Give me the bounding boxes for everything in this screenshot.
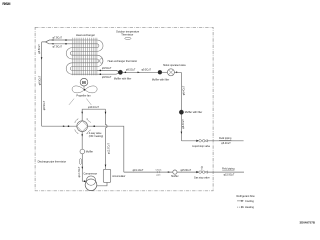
svg-text:joint: joint bbox=[156, 173, 161, 176]
propeller fan bbox=[72, 86, 97, 93]
svg-text:M: M bbox=[82, 80, 86, 85]
gas stop valve with service port bbox=[194, 166, 210, 179]
svg-text:φ19.1CuT: φ19.1CuT bbox=[88, 106, 99, 109]
coil outlet pipes to muffler with filter bbox=[97, 67, 121, 79]
svg-text:Field piping: Field piping bbox=[222, 167, 235, 170]
svg-text:φ19.1CuT: φ19.1CuT bbox=[133, 169, 144, 172]
svg-text:Heat exchanger thermistor: Heat exchanger thermistor bbox=[108, 60, 138, 63]
svg-text:φ6.4CuT: φ6.4CuT bbox=[182, 119, 185, 129]
svg-text:Muffler: Muffler bbox=[86, 151, 93, 154]
svg-text:RXS-M: RXS-M bbox=[2, 2, 10, 6]
svg-text:φ12.7CuT: φ12.7CuT bbox=[107, 143, 110, 154]
svg-text:Heating: Heating bbox=[245, 205, 254, 209]
svg-text:Cooling: Cooling bbox=[245, 199, 254, 203]
4-way valve bbox=[75, 119, 104, 139]
heat exchanger thermistor bbox=[100, 59, 103, 64]
svg-text:Check: Check bbox=[156, 169, 162, 171]
pipe muffler1 to muffler2 bbox=[123, 68, 158, 73]
svg-text:φ7.9CuT: φ7.9CuT bbox=[53, 37, 63, 40]
gas muffler bbox=[171, 170, 178, 178]
svg-text:Gas stop valve: Gas stop valve bbox=[194, 176, 210, 179]
svg-text:φ6.4CuT: φ6.4CuT bbox=[183, 85, 186, 95]
svg-text:Refrigerant flow: Refrigerant flow bbox=[237, 194, 255, 198]
svg-text:Liquid stop valve: Liquid stop valve bbox=[192, 145, 210, 148]
suction pipe accumulator to compressor bbox=[97, 182, 107, 185]
motor-operated valve bbox=[162, 64, 187, 76]
accumulator feed pipe with hop bbox=[105, 109, 111, 169]
svg-text:Heat exchanger: Heat exchanger bbox=[76, 33, 95, 37]
liquid stop valve bbox=[192, 140, 210, 148]
svg-text:Compressor: Compressor bbox=[83, 173, 97, 176]
discharge pipe thermistor bbox=[79, 159, 81, 165]
svg-text:φ9.5CuT: φ9.5CuT bbox=[39, 75, 42, 85]
svg-text:Discharge pipe thermistor: Discharge pipe thermistor bbox=[38, 160, 67, 163]
4-way valve bottom port pipe bbox=[81, 132, 83, 150]
svg-text:φ15.9CuT: φ15.9CuT bbox=[180, 169, 191, 172]
svg-text:φ15.9CuT: φ15.9CuT bbox=[224, 174, 235, 177]
svg-text:φ12.7CuT: φ12.7CuT bbox=[78, 166, 81, 177]
compressor bbox=[83, 173, 97, 191]
heat exchanger serpentine tube bbox=[66, 40, 103, 74]
svg-text:Motor-operated valve: Motor-operated valve bbox=[163, 64, 186, 67]
gas field piping label bbox=[222, 167, 235, 176]
svg-text:Accumulator: Accumulator bbox=[112, 175, 125, 178]
svg-text:Propeller fan: Propeller fan bbox=[76, 94, 91, 97]
muffler with filter 1 bbox=[114, 70, 132, 81]
pipe motor valve to liquid stop valve bbox=[174, 72, 196, 141]
svg-text:φ6.4CuT: φ6.4CuT bbox=[221, 142, 231, 145]
fan housing strokes bbox=[69, 99, 74, 105]
flow arcs around 4-way valve bbox=[75, 119, 91, 134]
coil inlet pipe upper bbox=[46, 37, 73, 42]
liquid side left pipe bbox=[38, 40, 77, 127]
coil inlet pipe lower bbox=[46, 42, 73, 49]
outdoor unit dashed boundary bbox=[35, 27, 213, 191]
flow arrow on gas pipe bbox=[168, 171, 170, 173]
muffler with filter 3 bbox=[179, 110, 202, 114]
svg-text:(ON: heating): (ON: heating) bbox=[89, 135, 104, 138]
svg-text:Muffler: Muffler bbox=[171, 175, 178, 178]
liquid field piping bbox=[207, 137, 243, 145]
svg-text:φ9.5CuT: φ9.5CuT bbox=[102, 76, 112, 79]
svg-text:Muffler with filter: Muffler with filter bbox=[152, 79, 170, 82]
svg-text:Thermistor: Thermistor bbox=[121, 34, 133, 37]
muffler with filter 2 bbox=[152, 70, 170, 81]
discharge muffler bbox=[80, 149, 85, 154]
svg-text:φ9.5CuT: φ9.5CuT bbox=[43, 100, 46, 110]
accumulator bbox=[97, 169, 126, 186]
discharge pipe to compressor bbox=[78, 154, 86, 182]
fan motor M bbox=[80, 78, 88, 89]
svg-text:φ9.5CuT: φ9.5CuT bbox=[142, 68, 152, 71]
legend refrigerant flow bbox=[237, 194, 255, 209]
gas pipe from 4-way valve bbox=[124, 169, 244, 172]
svg-text:φ9.5CuT: φ9.5CuT bbox=[126, 68, 136, 71]
4-way valve top port pipe bbox=[81, 106, 105, 121]
junction dot bbox=[68, 125, 70, 127]
heat exchanger fins bbox=[72, 38, 97, 76]
svg-text:3D049757B: 3D049757B bbox=[300, 220, 315, 224]
outdoor temperature thermistor bbox=[116, 31, 140, 40]
svg-text:φ9.5CuT: φ9.5CuT bbox=[102, 67, 112, 70]
svg-text:Muffler with filter: Muffler with filter bbox=[185, 111, 203, 114]
4-way valve right port pipe to gas line bbox=[88, 125, 124, 172]
down arrow on left pipe bbox=[41, 57, 43, 59]
svg-text:Muffler with filter: Muffler with filter bbox=[114, 78, 132, 81]
svg-text:Field piping: Field piping bbox=[219, 137, 232, 140]
check joint on gas pipe bbox=[156, 169, 162, 176]
svg-text:φ7.9CuT: φ7.9CuT bbox=[53, 46, 63, 49]
right arrow to 4-way valve bbox=[63, 125, 65, 127]
svg-text:φ9.5CuT: φ9.5CuT bbox=[38, 44, 41, 54]
